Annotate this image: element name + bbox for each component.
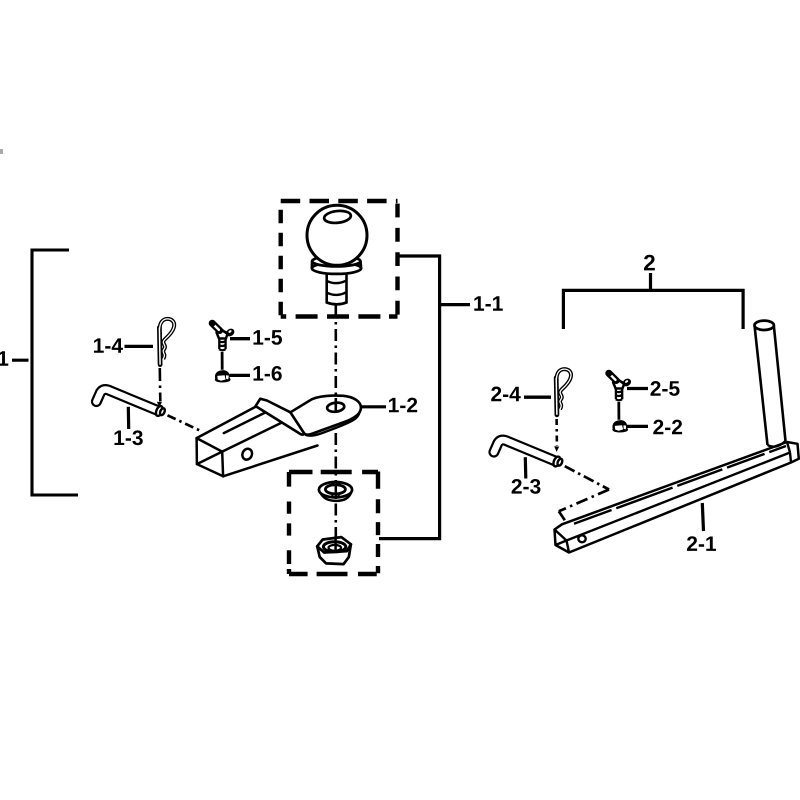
label 1-4 — [94, 338, 123, 352]
tube 2-1 — [555, 442, 799, 553]
label 2-2 — [626, 425, 648, 428]
lock washer — [319, 482, 352, 501]
shank — [327, 271, 347, 304]
bracket 1 — [12, 250, 78, 495]
dash-dot clip 2-4 to pin — [555, 419, 558, 446]
connector 2-5 to 2-2 — [617, 402, 620, 420]
plate thickness — [305, 412, 360, 436]
dash-dot clip 1-4 to pin — [159, 368, 162, 402]
label 1-5 — [254, 330, 282, 345]
post (vertical round tube of 2-1) — [755, 321, 786, 447]
hitch ball U (inside top box) — [307, 205, 367, 304]
label 1-4 — [125, 345, 154, 348]
label 1-6 — [254, 366, 282, 381]
bracket 2 — [563, 273, 743, 329]
label 2-4 — [491, 387, 521, 402]
sphere — [307, 205, 367, 265]
hex nut (bottom box) — [317, 537, 351, 564]
label 2-5 — [627, 387, 648, 390]
part 1-2: ball platform plate — [290, 396, 361, 435]
label 1-2 — [389, 398, 417, 413]
hitch pin 1-3 — [96, 389, 165, 416]
grease fitting 1-5 — [209, 320, 236, 351]
dash-dot pin 1-3 into tube — [168, 415, 200, 430]
label line 1-2 — [362, 405, 387, 408]
flange nut 1-6 — [215, 370, 231, 382]
part 1-2: Z-strap — [256, 399, 305, 435]
label 2-1 — [687, 536, 716, 551]
label 1-6 — [230, 374, 251, 377]
label 2-1 — [702, 503, 703, 531]
label 1-3 — [115, 430, 143, 445]
label 2-2 — [653, 420, 682, 435]
dash-dot through hole continuing below plate — [334, 398, 337, 412]
label 2-3 — [524, 457, 528, 478]
label 2 — [644, 255, 655, 271]
label 1 — [0, 351, 8, 365]
collar — [312, 263, 361, 274]
label 2-5 — [651, 381, 680, 396]
connector 1-5 to 1-6 — [221, 352, 224, 370]
label 1-1 — [474, 296, 502, 310]
hitch pin 2-3 — [494, 440, 563, 467]
label 1-5 — [230, 337, 250, 340]
center dash-dot line (ball to plate hole) — [334, 306, 337, 412]
tube side hole — [241, 447, 254, 461]
dashed box: washer+nut — [289, 472, 378, 575]
part 1-2: receiver tube — [197, 403, 322, 476]
flange nut 2-2 — [612, 420, 628, 432]
dashed box: ball — [281, 201, 398, 317]
R-clip 2-4 — [556, 369, 571, 415]
label 2-3 — [512, 479, 541, 494]
wire center line over nut — [334, 537, 337, 552]
label 1-3 — [127, 407, 131, 429]
connector 1-1 — [379, 256, 470, 539]
grease fitting 2-5 — [605, 370, 632, 401]
label 2-4 — [524, 396, 551, 399]
R-clip 1-4 — [159, 319, 174, 365]
speck — [0, 149, 3, 154]
dash-dot pin 2-3 into tube 2-1 (zigzag) — [565, 466, 609, 489]
plate hole — [327, 402, 345, 413]
